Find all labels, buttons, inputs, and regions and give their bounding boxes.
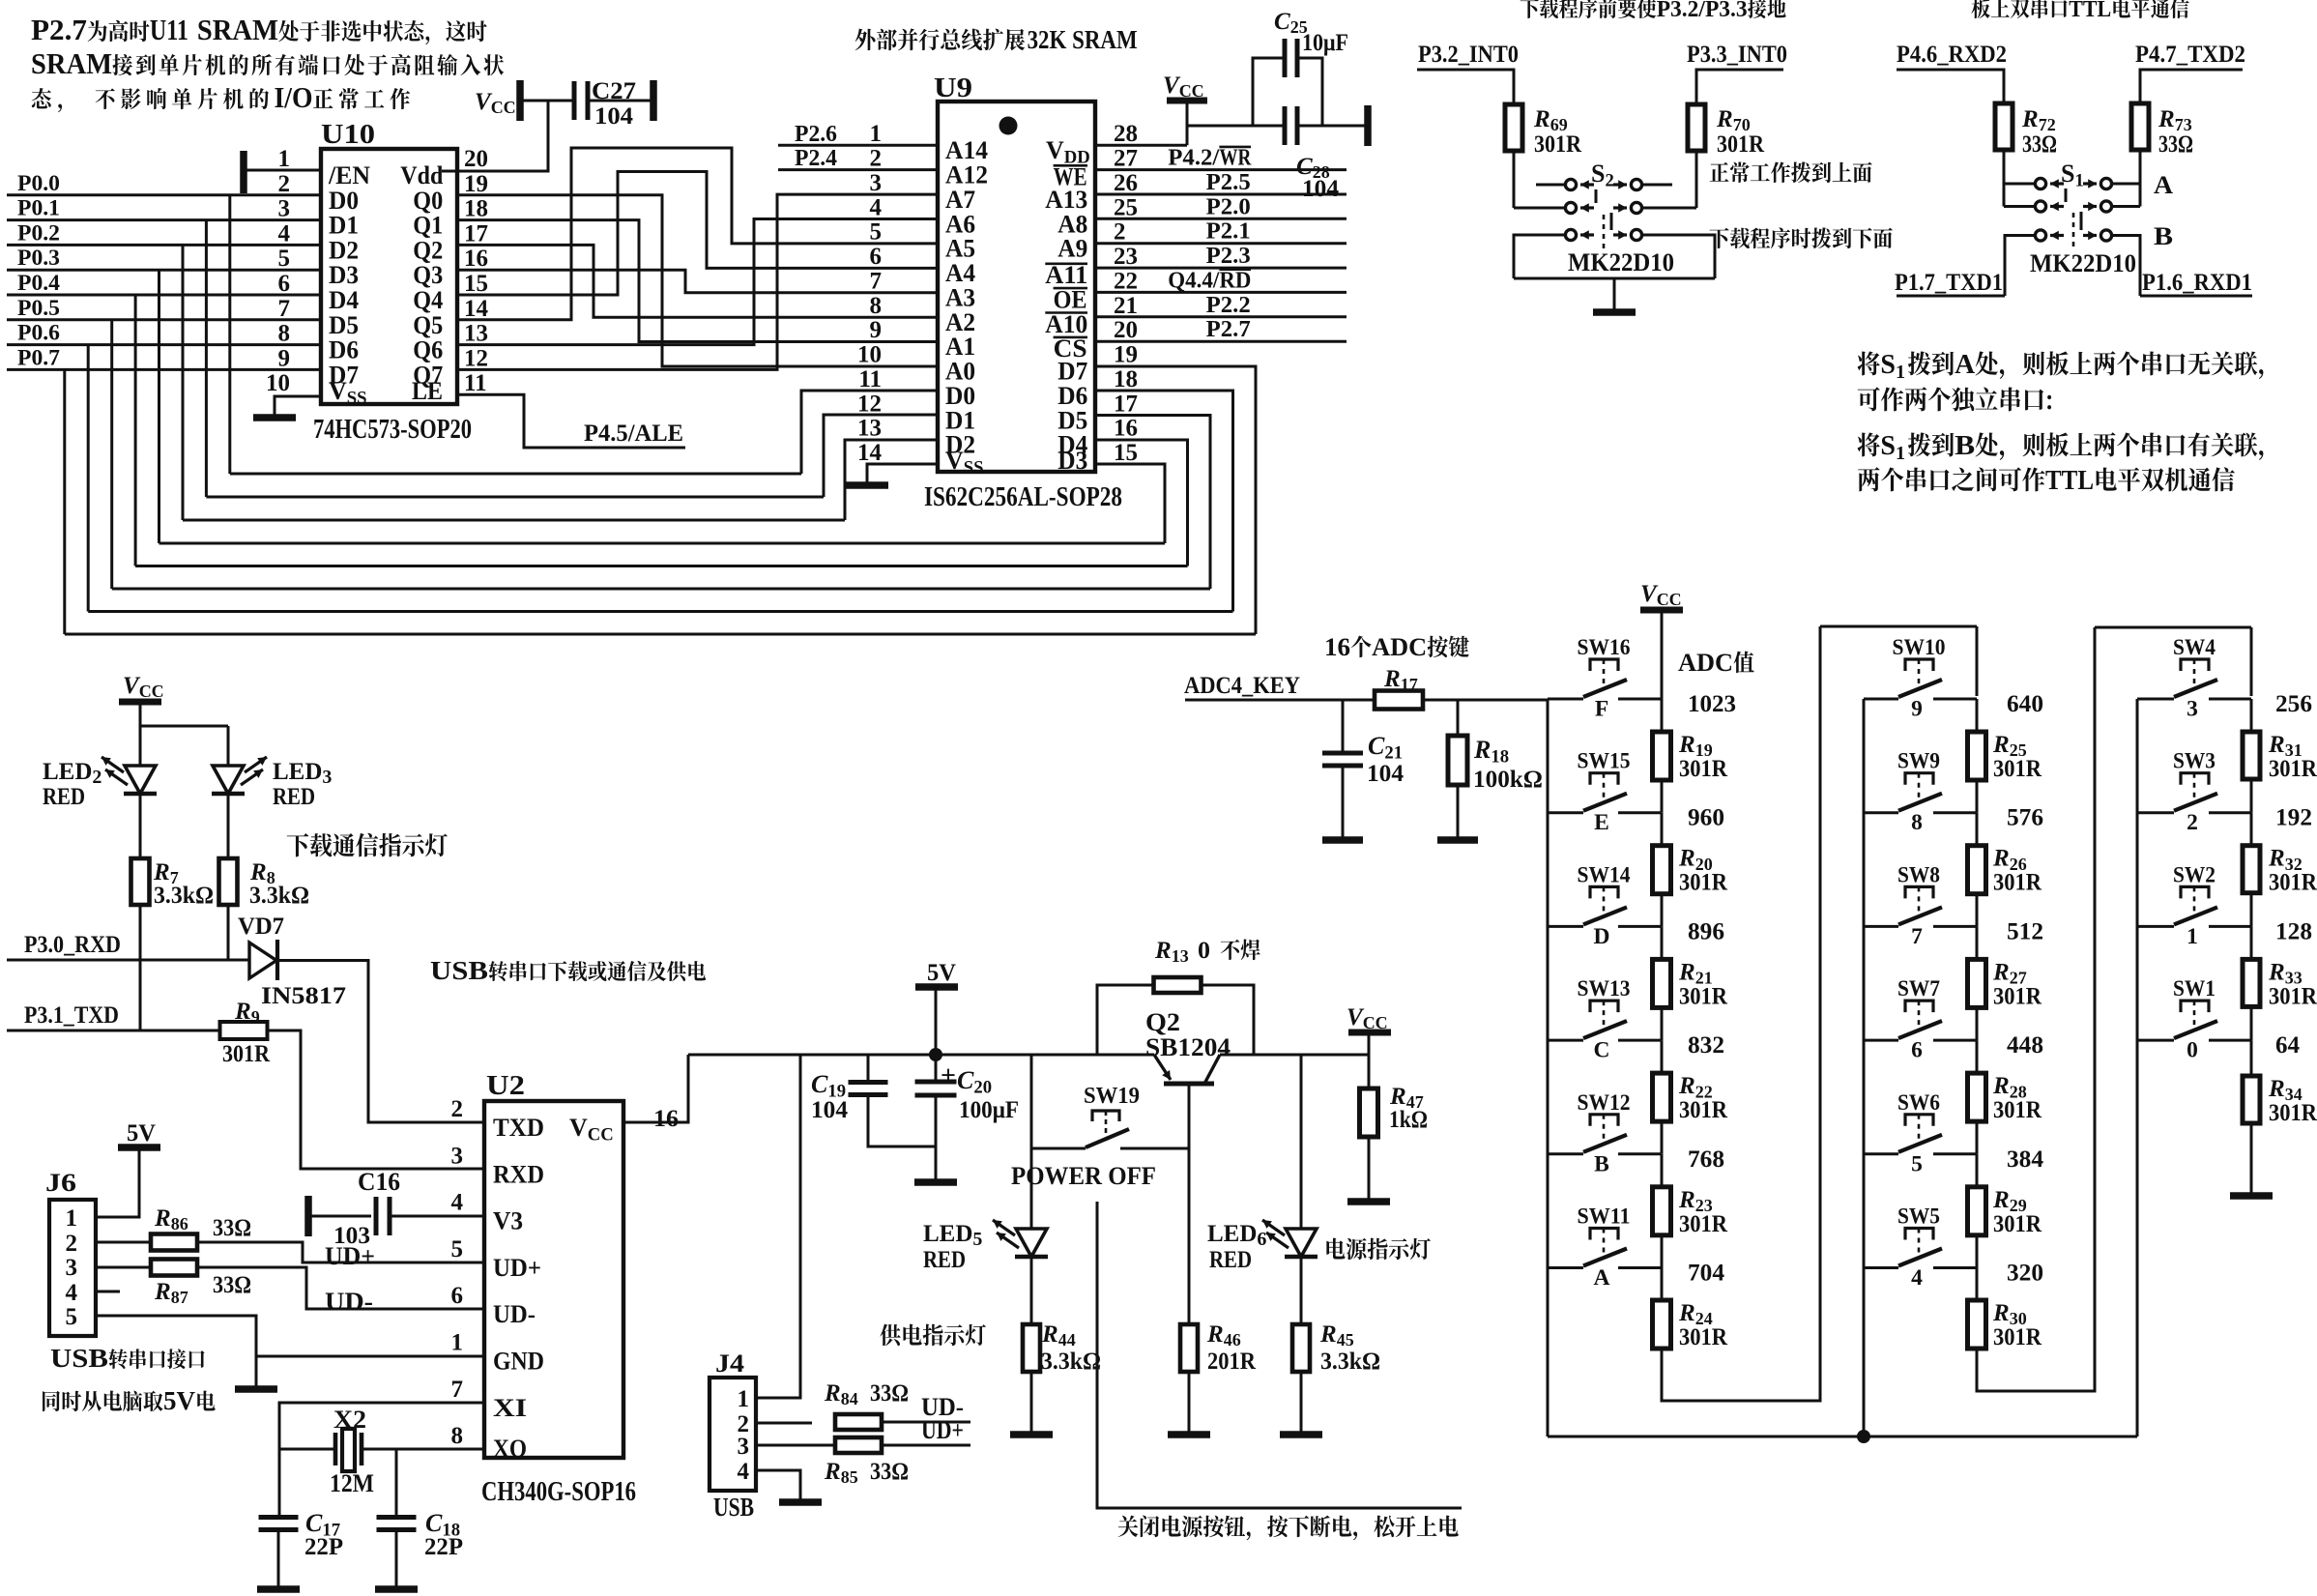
svg-text:1: 1 bbox=[870, 121, 883, 147]
svg-text:C20: C20 bbox=[957, 1066, 992, 1097]
wire LED5 column top bbox=[1030, 1055, 1033, 1229]
capacitor C25 bbox=[1253, 9, 1348, 126]
svg-text:6: 6 bbox=[870, 244, 883, 270]
svg-text:D3: D3 bbox=[1057, 447, 1087, 475]
wire VCC rail right bbox=[1220, 1054, 1369, 1057]
wire S2 row3 left bbox=[1514, 235, 1565, 278]
svg-text:4: 4 bbox=[870, 194, 883, 220]
switch S1 bbox=[2035, 160, 2111, 249]
svg-text:RXD: RXD bbox=[493, 1160, 544, 1188]
svg-text:16: 16 bbox=[1324, 633, 1350, 661]
resistor R18 bbox=[1448, 736, 1543, 793]
wire chain seg b bbox=[1661, 780, 1664, 813]
svg-text:R84: R84 bbox=[824, 1380, 858, 1408]
switch SW16 bbox=[1548, 635, 1661, 722]
svg-text:SW6: SW6 bbox=[1897, 1090, 1940, 1116]
svg-text:CH340G-SOP16: CH340G-SOP16 bbox=[481, 1477, 636, 1507]
svg-text:SW1: SW1 bbox=[2173, 976, 2216, 1001]
svg-text:S1: S1 bbox=[1880, 431, 1905, 464]
wire riser D0 bbox=[801, 391, 938, 474]
svg-text:12M: 12M bbox=[330, 1469, 374, 1497]
capacitor C28 bbox=[1285, 106, 1366, 202]
svg-text:MK22D10: MK22D10 bbox=[1568, 248, 1674, 276]
wire R18 gnd bbox=[1457, 785, 1460, 837]
wire chain seg b bbox=[1661, 1121, 1664, 1154]
svg-text:P2.2: P2.2 bbox=[1206, 293, 1251, 318]
wire R18 riser bbox=[1457, 700, 1460, 736]
resistor R44 bbox=[1023, 1321, 1101, 1375]
svg-text:SW7: SW7 bbox=[1897, 976, 1940, 1001]
wire VCC16 riser bbox=[623, 1055, 688, 1122]
svg-text:LED6: LED6 bbox=[1207, 1221, 1266, 1250]
crystal X2 bbox=[279, 1406, 396, 1497]
svg-text:GND: GND bbox=[493, 1348, 544, 1376]
wire R24 loop to col2 bbox=[1662, 626, 1820, 1401]
label ADC value bbox=[1678, 649, 1754, 677]
svg-text:VCC: VCC bbox=[1640, 581, 1682, 609]
svg-text:A: A bbox=[2154, 171, 2173, 199]
svg-text:1: 1 bbox=[2187, 924, 2198, 949]
capacitor C18 bbox=[377, 1509, 464, 1586]
wire ADC4_KEY bbox=[1185, 699, 1375, 702]
wire riser D6 bbox=[1095, 391, 1233, 612]
wire riser D5 bbox=[1095, 416, 1210, 590]
svg-text:74HC573-SOP20: 74HC573-SOP20 bbox=[313, 415, 472, 445]
svg-text:17: 17 bbox=[1114, 391, 1138, 417]
pin1 dot bbox=[999, 117, 1018, 135]
svg-text:D5: D5 bbox=[329, 311, 359, 339]
wire Q5-A5 bbox=[457, 148, 938, 320]
resistor R30 bbox=[1968, 1300, 2042, 1350]
svg-text:Q2: Q2 bbox=[1145, 1008, 1180, 1036]
wire pin1 bbox=[244, 169, 321, 172]
svg-text:15: 15 bbox=[464, 271, 488, 297]
wire J6 pin4 stub bbox=[96, 1291, 120, 1293]
power symbol VCC (Q2) bbox=[1347, 1004, 1391, 1055]
svg-text:33Ω: 33Ω bbox=[2158, 131, 2193, 158]
wire P4.6 bbox=[1897, 70, 2004, 103]
ground (R46) bbox=[1168, 1431, 1210, 1438]
ground (R45) bbox=[1280, 1431, 1322, 1438]
svg-text:301R: 301R bbox=[2269, 1100, 2317, 1126]
wire R46 gnd bbox=[1188, 1372, 1191, 1432]
wire chain seg b bbox=[1661, 1007, 1664, 1040]
wire U9 Vss to ground bbox=[867, 464, 938, 482]
resistor R29 bbox=[1968, 1187, 2042, 1237]
label download indicator bbox=[287, 833, 448, 857]
wire Q1-A1 bbox=[457, 220, 938, 342]
title dual UART note bbox=[1971, 0, 2188, 22]
wire R87 to UD- bbox=[197, 1267, 484, 1309]
svg-text:SW8: SW8 bbox=[1897, 862, 1940, 887]
capacitor C16 bbox=[311, 1168, 400, 1249]
svg-text:896: 896 bbox=[1688, 918, 1724, 944]
wire pin stub P2.3 bbox=[1095, 267, 1347, 270]
svg-text:22P: 22P bbox=[304, 1534, 343, 1560]
svg-text:Vdd: Vdd bbox=[400, 161, 443, 189]
wire P0.6 bbox=[7, 343, 321, 346]
svg-text:8: 8 bbox=[1911, 810, 1923, 835]
svg-text:P2.7: P2.7 bbox=[1206, 317, 1251, 342]
svg-text:R72: R72 bbox=[2021, 106, 2056, 134]
svg-text:R44: R44 bbox=[1041, 1321, 1076, 1349]
svg-text:11: 11 bbox=[858, 366, 882, 392]
svg-text:64: 64 bbox=[2275, 1032, 2301, 1059]
svg-text:9: 9 bbox=[1911, 697, 1923, 722]
switch SW10 bbox=[1864, 635, 1977, 722]
wire pin stub Q4.4/RD bbox=[1095, 291, 1347, 294]
svg-text:MK22D10: MK22D10 bbox=[2030, 249, 2136, 277]
svg-text:28: 28 bbox=[1114, 121, 1138, 147]
svg-text:P0.1: P0.1 bbox=[17, 196, 60, 220]
wire GND pin1 bbox=[256, 1355, 484, 1358]
svg-text:16: 16 bbox=[653, 1106, 679, 1132]
ground (C21) bbox=[1322, 836, 1363, 844]
svg-text:P2.4: P2.4 bbox=[795, 146, 837, 171]
wire chain seg bbox=[2250, 699, 2253, 732]
svg-text:4: 4 bbox=[66, 1280, 78, 1306]
wire Q4-A4 bbox=[457, 172, 938, 296]
wire chain seg b bbox=[1976, 780, 1979, 813]
wire col2 top bar bbox=[1820, 625, 1977, 628]
wire LED6 column bbox=[1300, 1055, 1303, 1229]
svg-text:R69: R69 bbox=[1533, 106, 1568, 134]
wire bus P0.2 vertical bbox=[182, 245, 185, 520]
svg-text:2: 2 bbox=[1114, 219, 1126, 246]
resistor R31 bbox=[2243, 732, 2317, 782]
resistor R24 bbox=[1653, 1300, 1728, 1350]
svg-text:3: 3 bbox=[278, 196, 291, 222]
svg-text:104: 104 bbox=[811, 1097, 849, 1123]
svg-text:33Ω: 33Ω bbox=[2022, 131, 2057, 158]
wire chain seg bbox=[1976, 813, 1979, 846]
switch SW1 bbox=[2137, 976, 2251, 1063]
svg-text:U11: U11 bbox=[150, 13, 188, 46]
wire P2.6 bbox=[778, 144, 938, 147]
svg-text:P4.6_RXD2: P4.6_RXD2 bbox=[1897, 42, 2007, 68]
svg-text:ADC4_KEY: ADC4_KEY bbox=[1184, 673, 1300, 699]
svg-text:17: 17 bbox=[464, 220, 488, 247]
wire chain seg bbox=[1661, 699, 1664, 732]
resistor R27 bbox=[1968, 959, 2042, 1009]
svg-text:100μF: 100μF bbox=[959, 1097, 1019, 1123]
svg-text:B: B bbox=[1594, 1151, 1609, 1176]
svg-text:576: 576 bbox=[2007, 805, 2043, 831]
svg-text:14: 14 bbox=[857, 440, 883, 466]
wire bus P0.5 horizontal bbox=[112, 588, 1210, 591]
ground (U2 GND) bbox=[235, 1385, 277, 1393]
wire pin stub P2.2 bbox=[1095, 315, 1347, 318]
svg-text:S1: S1 bbox=[1880, 350, 1905, 383]
svg-text:4: 4 bbox=[278, 220, 291, 247]
wire P3.3 bbox=[1696, 70, 1783, 104]
ground (U10 Vss) bbox=[253, 414, 296, 421]
svg-text:VCC: VCC bbox=[475, 89, 516, 117]
wire rail col1 bbox=[1547, 700, 1549, 1436]
wire LED6 to R45 bbox=[1300, 1257, 1303, 1324]
wire R45 gnd bbox=[1300, 1372, 1303, 1432]
svg-text:6: 6 bbox=[278, 271, 291, 297]
svg-text:U10: U10 bbox=[321, 120, 375, 150]
resistor R19 bbox=[1653, 732, 1728, 782]
svg-text:5: 5 bbox=[278, 246, 291, 272]
svg-text:I/O: I/O bbox=[275, 80, 313, 114]
svg-text:301R: 301R bbox=[2269, 870, 2317, 896]
wire R70 to S2 bbox=[1695, 151, 1698, 208]
svg-text:P1.7_TXD1: P1.7_TXD1 bbox=[1895, 270, 2003, 296]
wire chain seg bbox=[1661, 926, 1664, 959]
wire base down bbox=[1188, 1084, 1191, 1148]
wire J6 pin5 gnd bbox=[96, 1316, 256, 1386]
svg-text:LED5: LED5 bbox=[923, 1221, 982, 1250]
resistor R13 0ohm bbox=[1154, 938, 1210, 966]
ground (ADC chain) bbox=[2230, 1192, 2273, 1200]
svg-text:301R: 301R bbox=[1993, 1211, 2042, 1237]
svg-text:UD+: UD+ bbox=[921, 1416, 964, 1444]
wire LED5 to R44 bbox=[1030, 1257, 1033, 1324]
svg-text:P0.5: P0.5 bbox=[17, 296, 60, 320]
svg-text:R45: R45 bbox=[1319, 1321, 1354, 1349]
svg-text:104: 104 bbox=[1367, 761, 1405, 787]
svg-text:V3: V3 bbox=[493, 1207, 523, 1235]
svg-text:P3.2_INT0: P3.2_INT0 bbox=[1418, 42, 1519, 68]
wire LED3 to R8 bbox=[227, 794, 230, 858]
wire VCC to LEDs bbox=[139, 702, 142, 726]
svg-text:13: 13 bbox=[857, 416, 882, 442]
wire R69 to S2 bbox=[1513, 151, 1516, 208]
resistor R23 bbox=[1653, 1187, 1728, 1237]
svg-text:USB: USB bbox=[50, 1344, 108, 1373]
svg-text:UD+: UD+ bbox=[325, 1242, 375, 1270]
wire Q6-A6 bbox=[457, 219, 938, 345]
resistor R32 bbox=[2243, 846, 2317, 896]
svg-text:6: 6 bbox=[451, 1283, 464, 1309]
ground (C20) bbox=[914, 1178, 957, 1186]
note S1 position B line2 bbox=[1858, 466, 2235, 496]
svg-text:P3.1_TXD: P3.1_TXD bbox=[24, 1002, 119, 1029]
note down position bbox=[1710, 227, 1893, 248]
connector J6 bbox=[45, 1169, 96, 1336]
wire chain seg bbox=[2250, 926, 2253, 959]
svg-text:IN5817: IN5817 bbox=[261, 983, 346, 1009]
svg-text:301R: 301R bbox=[1679, 983, 1728, 1009]
svg-text:201R: 201R bbox=[1207, 1349, 1257, 1375]
svg-text:26: 26 bbox=[1114, 170, 1138, 196]
svg-text:301R: 301R bbox=[1993, 870, 2042, 896]
wire riser D4 bbox=[1095, 440, 1188, 566]
wire bus P0.6 horizontal bbox=[88, 610, 1232, 613]
svg-text:Q5: Q5 bbox=[413, 311, 443, 339]
svg-text:4: 4 bbox=[738, 1459, 750, 1485]
svg-text:SW14: SW14 bbox=[1578, 862, 1631, 887]
power symbol 5V (J6) bbox=[118, 1120, 160, 1147]
capacitor C20 polarized bbox=[915, 1055, 1020, 1179]
wire R86 to UD+ bbox=[197, 1242, 484, 1262]
label not soldered bbox=[1221, 939, 1260, 960]
svg-text:3.3kΩ: 3.3kΩ bbox=[154, 883, 214, 909]
ground (J4) bbox=[779, 1498, 822, 1506]
wire VCC to C27 bbox=[523, 100, 572, 102]
svg-text:33Ω: 33Ω bbox=[213, 1215, 251, 1241]
capacitor C21 bbox=[1322, 700, 1405, 837]
svg-text:SRAM: SRAM bbox=[197, 13, 278, 46]
svg-text:301R: 301R bbox=[1679, 1097, 1728, 1123]
svg-text:SRAM: SRAM bbox=[31, 46, 112, 80]
wire S2 bottom bbox=[1514, 277, 1715, 280]
svg-text:18: 18 bbox=[1114, 366, 1138, 392]
wire Q3-A3 bbox=[457, 270, 938, 293]
wire bus P0.2 horizontal bbox=[183, 519, 845, 522]
capacitor C19 bbox=[811, 1055, 936, 1146]
wire chain after 0 bbox=[2250, 1040, 2253, 1076]
wire chain2 top bbox=[1976, 626, 1979, 696]
svg-text:XO: XO bbox=[493, 1435, 527, 1463]
wire VCC branch to caps bbox=[1187, 125, 1283, 128]
switch SW13 bbox=[1548, 976, 1661, 1063]
wire VD7 to U2 TXD bbox=[277, 961, 484, 1123]
svg-text:Q6: Q6 bbox=[413, 336, 443, 364]
wire riser D1 bbox=[824, 415, 938, 497]
svg-text:P2.6: P2.6 bbox=[795, 122, 837, 147]
svg-text:9: 9 bbox=[278, 345, 291, 371]
svg-text:33Ω: 33Ω bbox=[870, 1380, 909, 1407]
svg-text:SW15: SW15 bbox=[1578, 749, 1631, 774]
svg-text:D: D bbox=[1594, 924, 1610, 949]
wire bus P0.0 horizontal bbox=[230, 473, 801, 476]
label power indicator bbox=[1326, 1238, 1431, 1261]
svg-text:P0.3: P0.3 bbox=[17, 246, 60, 270]
svg-text:VCC: VCC bbox=[123, 673, 164, 701]
LED6 bbox=[1207, 1220, 1318, 1273]
svg-text:UD-: UD- bbox=[493, 1300, 536, 1328]
svg-text:27: 27 bbox=[1114, 146, 1138, 172]
wire chain seg b bbox=[1976, 1235, 1979, 1268]
rail bar right of C28 bbox=[1364, 105, 1372, 146]
switch SW14 bbox=[1548, 862, 1661, 949]
svg-text:20: 20 bbox=[1114, 317, 1138, 343]
switch SW9 bbox=[1864, 749, 1977, 836]
svg-text:Q0: Q0 bbox=[413, 187, 443, 215]
svg-text:301R: 301R bbox=[222, 1041, 271, 1067]
resistor R25 bbox=[1968, 732, 2042, 782]
wire riser D2 bbox=[845, 440, 938, 520]
resistor R20 bbox=[1653, 846, 1728, 896]
svg-text:6: 6 bbox=[1911, 1038, 1923, 1063]
svg-text:16: 16 bbox=[1114, 416, 1138, 442]
svg-text:VD7: VD7 bbox=[238, 914, 284, 940]
svg-text:P3.2/P3.3: P3.2/P3.3 bbox=[1657, 0, 1748, 22]
title 32K SRAM bbox=[855, 25, 1138, 54]
wire XO bbox=[396, 1448, 484, 1451]
label power supply indicator bbox=[880, 1324, 985, 1347]
svg-text:P0.4: P0.4 bbox=[17, 271, 61, 295]
svg-text:16: 16 bbox=[464, 246, 488, 272]
wire to ground bbox=[1613, 278, 1616, 309]
svg-text:768: 768 bbox=[1688, 1146, 1724, 1173]
wire UD- out bbox=[882, 1421, 970, 1424]
wire J4 pin2 bbox=[756, 1422, 812, 1425]
svg-text:ADC: ADC bbox=[1372, 633, 1427, 661]
svg-text:A: A bbox=[1955, 350, 1976, 380]
wire Q0-A0 bbox=[457, 195, 938, 366]
resistor R28 bbox=[1968, 1073, 2042, 1123]
wire P0.4 bbox=[7, 294, 321, 297]
svg-text:32K SRAM: 32K SRAM bbox=[1028, 25, 1138, 54]
wire Vdd riser bbox=[442, 101, 548, 171]
junction dot 5V bbox=[929, 1048, 942, 1061]
title download note bbox=[1521, 0, 1786, 22]
power symbol VCC (U9) bbox=[1163, 73, 1207, 101]
svg-text:3: 3 bbox=[870, 170, 883, 196]
wire pin stub P2.7 bbox=[1095, 340, 1347, 343]
note up position bbox=[1710, 161, 1872, 183]
svg-text:301R: 301R bbox=[1679, 1324, 1728, 1350]
wire bus P0.4 vertical bbox=[134, 295, 137, 566]
svg-text:C27: C27 bbox=[592, 78, 636, 104]
svg-text:33Ω: 33Ω bbox=[870, 1459, 909, 1485]
wire col3 top bar bbox=[2095, 626, 2251, 629]
svg-text:A: A bbox=[1594, 1265, 1610, 1291]
ground (C17) bbox=[257, 1585, 300, 1593]
svg-text:0: 0 bbox=[1198, 938, 1210, 964]
svg-text:18: 18 bbox=[464, 196, 488, 222]
svg-text:2: 2 bbox=[278, 171, 291, 197]
svg-text:P2.1: P2.1 bbox=[1206, 219, 1251, 245]
svg-text:R13: R13 bbox=[1154, 938, 1189, 966]
svg-text:256: 256 bbox=[2275, 691, 2312, 717]
svg-text:301R: 301R bbox=[2269, 983, 2317, 1009]
wire rail col3 inner bbox=[2136, 699, 2139, 1436]
svg-text:VCC: VCC bbox=[569, 1114, 614, 1145]
note S1 position A line2 bbox=[1858, 387, 2051, 411]
resistor R9 bbox=[220, 999, 271, 1067]
svg-text:D1: D1 bbox=[329, 212, 359, 240]
svg-text:P1.6_RXD1: P1.6_RXD1 bbox=[2142, 270, 2252, 296]
svg-text:P2.5: P2.5 bbox=[1206, 170, 1251, 195]
wire chain seg b bbox=[2250, 1005, 2253, 1040]
wire rail col2 inner bbox=[1863, 699, 1866, 1436]
svg-text:P0.2: P0.2 bbox=[17, 220, 60, 245]
svg-text:SW4: SW4 bbox=[2173, 635, 2216, 660]
callout line power off bbox=[1097, 1202, 1462, 1508]
svg-text:301R: 301R bbox=[1717, 131, 1765, 158]
resistor R85 bbox=[824, 1437, 909, 1487]
svg-text:1kΩ: 1kΩ bbox=[1389, 1107, 1428, 1133]
wire R30 loop to col3 bbox=[1977, 627, 2095, 1391]
wire P3.0 bbox=[7, 959, 249, 962]
wire bus P0.1 vertical bbox=[205, 220, 208, 497]
wire 5V stem bbox=[935, 987, 938, 1055]
svg-text:U9: U9 bbox=[934, 73, 972, 103]
junction dot common bbox=[1857, 1430, 1870, 1443]
wire XI bbox=[279, 1403, 484, 1516]
svg-text:SW9: SW9 bbox=[1897, 749, 1940, 774]
svg-text:1: 1 bbox=[451, 1330, 464, 1356]
wire P3.1 bbox=[7, 1030, 220, 1032]
svg-text:RED: RED bbox=[923, 1247, 966, 1273]
svg-text:3: 3 bbox=[66, 1255, 78, 1281]
svg-text:5: 5 bbox=[451, 1236, 464, 1262]
svg-text:3.3kΩ: 3.3kΩ bbox=[1320, 1349, 1380, 1375]
svg-text:D6: D6 bbox=[329, 336, 359, 364]
capacitor C27 bbox=[574, 78, 651, 130]
svg-text:10μF: 10μF bbox=[1302, 30, 1348, 56]
wire R17 to rail bbox=[1423, 699, 1548, 702]
resistor R69 bbox=[1505, 104, 1582, 158]
switch SW6 bbox=[1864, 1090, 1977, 1177]
svg-text:7: 7 bbox=[278, 296, 291, 322]
svg-text:SW5: SW5 bbox=[1897, 1204, 1940, 1230]
